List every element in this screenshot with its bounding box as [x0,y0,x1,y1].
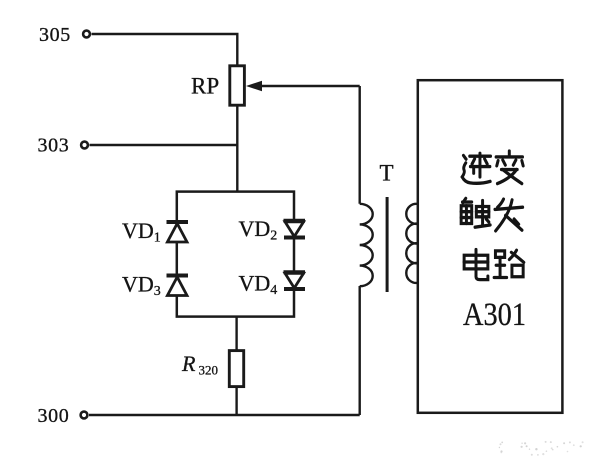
text char 电 [464,249,488,279]
wire RP bottom to bridge top [236,105,238,192]
transformer primary winding [360,204,373,286]
svg-text:300: 300 [38,405,70,427]
diode VD2 [284,221,306,238]
diode VD3 [167,276,189,296]
resistor R320 body [229,351,243,387]
wire from wiper corner down to primary winding [359,86,361,204]
terminal 303 [81,142,88,149]
diode VD1 [167,222,189,242]
text char 变 [496,151,523,184]
text char 逆 [462,153,490,183]
svg-text:T: T [380,160,394,185]
svg-text:A301: A301 [463,297,526,333]
potentiometer wiper arrow [246,81,360,92]
transformer secondary winding [406,204,418,283]
wire bottom rail up to primary winding [359,286,361,415]
svg-text:303: 303 [38,135,70,157]
text char 路 [494,250,524,277]
wire from terminal 305 to RP top [92,34,238,66]
svg-text:R: R [181,351,196,376]
svg-text:VD1: VD1 [122,218,161,246]
faint watermark [499,441,584,456]
transformer core [386,197,389,292]
svg-text:320: 320 [199,363,219,378]
svg-text:RP: RP [191,74,219,99]
svg-text:305: 305 [39,24,71,46]
svg-text:VD3: VD3 [122,271,161,299]
text char 触 [461,198,490,227]
bottom rail wire 300 [89,414,360,416]
potentiometer RP body [230,66,245,105]
diode bridge frame [177,192,294,317]
text char 发 [495,199,523,231]
diode VD4 [284,272,306,289]
wire R320 to bottom rail [235,387,237,415]
wire bridge bottom to R320 [235,317,237,351]
box A301 inverter trigger circuit [418,80,563,413]
terminal 305 [83,31,90,38]
wire 303 to RP branch [90,144,239,146]
terminal 300 [81,412,88,419]
